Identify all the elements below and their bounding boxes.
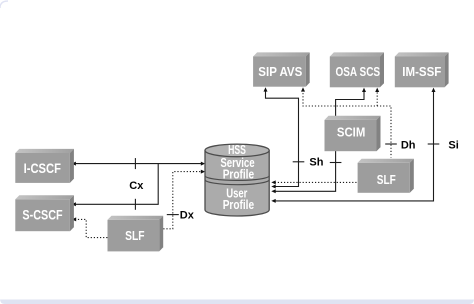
wire IM-SSF to HSS (solid) xyxy=(276,91,434,201)
tick Cx lower xyxy=(134,199,136,210)
svg-text:OSA SCS: OSA SCS xyxy=(336,64,381,79)
cylinder divider upper arc xyxy=(205,176,269,181)
bottom bar xyxy=(0,299,474,304)
arrowhead into HSS right (SCIM) xyxy=(271,189,275,193)
wire SCIM to HSS (solid) xyxy=(276,151,336,191)
svg-text:Dx: Dx xyxy=(180,209,195,221)
tick Dh xyxy=(385,143,397,145)
wire dotted SLF right to HSS xyxy=(276,181,357,183)
arrowhead into I-CSCF xyxy=(72,162,76,166)
arrowhead up into OSA SCS xyxy=(362,88,366,92)
arrowhead dotted up into SIP AVS xyxy=(301,87,305,91)
cylinder HSS xyxy=(205,142,269,216)
svg-text:SLF: SLF xyxy=(377,172,396,187)
svg-text:Sh: Sh xyxy=(309,156,323,168)
wire Cx I-CSCF to HSS xyxy=(76,163,202,165)
box IM-SSF xyxy=(395,52,449,87)
svg-text:HSS: HSS xyxy=(228,142,246,157)
tick Sh left xyxy=(293,161,305,163)
wire dotted Dx SLF to HSS xyxy=(163,172,201,229)
arrowhead dotted into S-CSCF xyxy=(72,217,76,221)
arrowhead into HSS right (SIP) xyxy=(271,185,275,189)
arrowhead dotted up into OSA SCS xyxy=(375,88,379,92)
arrowhead up into SIP AVS xyxy=(264,87,268,91)
svg-text:Dh: Dh xyxy=(401,139,416,151)
box I-CSCF xyxy=(15,149,74,183)
box SIP AVS xyxy=(253,52,310,86)
wire SIP AVS to HSS (solid elbow) xyxy=(266,91,299,187)
box SLF left xyxy=(108,216,164,252)
svg-text:IM-SSF: IM-SSF xyxy=(402,64,441,79)
tick Si xyxy=(428,143,440,145)
tick Cx upper xyxy=(134,158,136,169)
wire Cx elbow to S-CSCF xyxy=(76,164,159,205)
wire dotted branch to OSA SCS xyxy=(376,90,378,106)
wire dotted SLF to S-CSCF xyxy=(76,219,107,237)
svg-text:Profile: Profile xyxy=(223,168,254,182)
svg-text:S-CSCF: S-CSCF xyxy=(22,207,62,222)
svg-text:I-CSCF: I-CSCF xyxy=(24,161,61,176)
cylinder divider lower arc xyxy=(205,180,269,185)
box OSA SCS xyxy=(330,52,384,87)
tick Dx xyxy=(167,214,179,216)
arrowhead up into IM-SSF xyxy=(432,88,436,92)
arrowhead dotted into HSS left (Dx) xyxy=(201,170,205,174)
svg-text:SLF: SLF xyxy=(125,228,144,243)
arrowhead into S-CSCF (Cx) xyxy=(72,202,76,206)
arrowhead dotted into HSS right (SLF) xyxy=(271,180,275,184)
svg-text:Profile: Profile xyxy=(223,198,254,212)
svg-text:Si: Si xyxy=(448,139,458,151)
svg-text:SIP AVS: SIP AVS xyxy=(258,64,302,79)
tick Sh right xyxy=(330,162,342,164)
frame corner top-left xyxy=(0,1,8,8)
svg-text:SCIM: SCIM xyxy=(337,124,365,139)
box S-CSCF xyxy=(15,195,74,231)
wire dotted Dh bus SIP AVS / OSA SCS to SLF xyxy=(303,90,391,158)
box SLF right xyxy=(358,159,414,193)
arrowhead into HSS left (Cx) xyxy=(201,162,205,166)
wire OSA SCS to SCIM (solid) xyxy=(336,91,364,117)
svg-text:Cx: Cx xyxy=(129,180,144,192)
arrowhead into HSS right (IM-SSF) xyxy=(271,199,275,203)
box SCIM xyxy=(325,116,381,151)
